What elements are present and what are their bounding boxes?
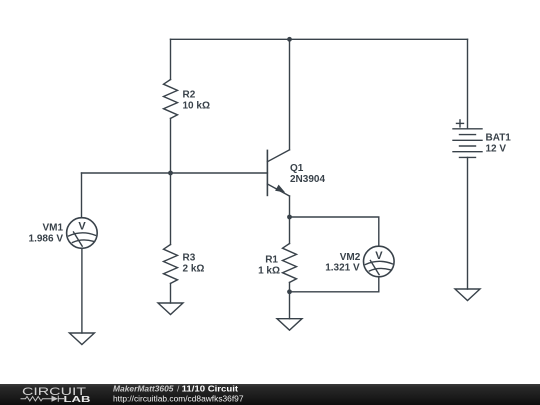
svg-text:11/10 Circuit: 11/10 Circuit xyxy=(182,384,239,394)
label voltmeter V glyph VM1 xyxy=(78,221,86,233)
resistor R3 xyxy=(164,245,178,284)
svg-text:V: V xyxy=(375,250,383,262)
label Q1 designator xyxy=(290,163,304,174)
wire R2 bottom segment xyxy=(170,118,172,173)
label voltmeter V glyph VM2 xyxy=(375,250,383,262)
ground R3 xyxy=(158,303,183,315)
label Q1 part 2N3904 xyxy=(290,174,325,185)
wire collector segment xyxy=(289,39,291,150)
svg-text:V: V xyxy=(78,221,86,233)
wire base rail xyxy=(82,172,268,174)
footer bar xyxy=(0,384,540,405)
resistor R2 xyxy=(164,80,178,119)
transistor Q1 xyxy=(267,150,289,196)
label BAT1 designator xyxy=(486,133,512,144)
svg-text:http://circuitlab.com/cd8awfks: http://circuitlab.com/cd8awfks36f97 xyxy=(113,393,244,403)
ground VM1 xyxy=(69,333,94,345)
svg-text:Q1: Q1 xyxy=(290,163,304,174)
label R1 value 1 kOhm xyxy=(258,265,280,276)
svg-text:VM2: VM2 xyxy=(340,252,361,263)
wire R1 to ground xyxy=(289,292,291,319)
wire R1 top segment xyxy=(289,217,291,244)
node R1 bottom junction xyxy=(287,289,292,294)
svg-text:1.321 V: 1.321 V xyxy=(325,263,360,274)
wire top rail V+ xyxy=(171,38,468,40)
svg-text:10 kΩ: 10 kΩ xyxy=(183,101,210,112)
voltmeter VM2 xyxy=(364,246,395,277)
wire R3 top segment xyxy=(170,173,172,245)
label VM1 designator xyxy=(42,223,63,234)
svg-text:2N3904: 2N3904 xyxy=(290,174,325,185)
wire R2 top segment xyxy=(170,39,172,79)
node collector junction top xyxy=(287,37,292,42)
label VM2 designator xyxy=(340,252,361,263)
svg-text:R1: R1 xyxy=(265,254,278,265)
svg-text:R2: R2 xyxy=(183,90,196,101)
label BAT1 value 12 V xyxy=(486,144,507,155)
svg-text:12 V: 12 V xyxy=(486,144,507,155)
voltmeter VM1 xyxy=(67,218,98,249)
ground R1 xyxy=(277,319,302,331)
wire R1 bottom segment xyxy=(289,282,291,291)
battery BAT1 xyxy=(453,120,482,157)
wire battery bottom segment xyxy=(467,157,469,289)
wire emitter to VM2 top xyxy=(290,217,379,246)
label R3 value 2 kOhm xyxy=(183,264,205,275)
label VM2 value 1.321 V xyxy=(325,263,360,274)
ground BAT1 xyxy=(455,289,480,301)
label R1 designator xyxy=(265,254,278,265)
svg-text:BAT1: BAT1 xyxy=(486,133,512,144)
svg-text:R3: R3 xyxy=(183,253,196,264)
label R2 value 10 kOhm xyxy=(183,101,210,112)
wire VM2 bottom to R1 bottom xyxy=(290,277,379,292)
wire battery top segment xyxy=(467,39,469,129)
resistor R1 xyxy=(283,244,297,283)
svg-text:1 kΩ: 1 kΩ xyxy=(258,265,280,276)
wire R3 bottom segment xyxy=(170,283,172,303)
svg-text:2 kΩ: 2 kΩ xyxy=(183,264,205,275)
svg-text:LAB: LAB xyxy=(64,394,91,404)
wire VM1 top segment xyxy=(81,173,83,218)
node emitter junction xyxy=(287,215,292,220)
svg-text:1.986 V: 1.986 V xyxy=(29,233,64,244)
svg-text:MakerMatt3605: MakerMatt3605 xyxy=(113,384,174,394)
wire emitter segment xyxy=(289,196,291,217)
footer credit text xyxy=(113,384,244,404)
label R2 designator xyxy=(183,90,196,101)
label R3 designator xyxy=(183,253,196,264)
node base junction xyxy=(168,171,173,176)
logo CircuitLab xyxy=(21,386,91,404)
svg-text:VM1: VM1 xyxy=(42,223,63,234)
wire VM1 bottom segment xyxy=(81,248,83,333)
label VM1 value 1.986 V xyxy=(29,233,64,244)
